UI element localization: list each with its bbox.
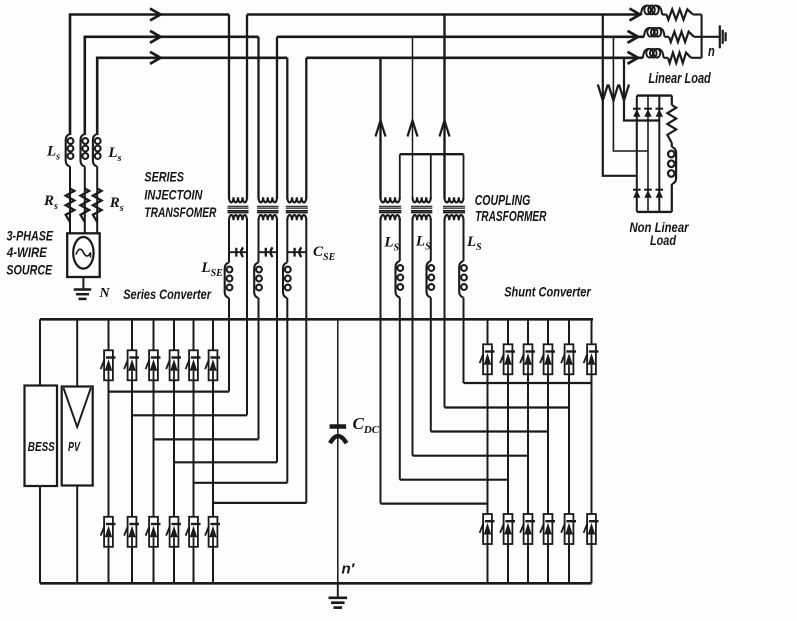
wire shunt leg 1 upper stub xyxy=(487,319,489,344)
svg-text:INJECTOIN: INJECTOIN xyxy=(144,186,203,202)
IGBT switch series bottom S2p xyxy=(124,517,139,547)
transformer TC1 coupling xyxy=(379,197,401,220)
source symbol circle xyxy=(73,237,93,269)
resistor linear load phase A xyxy=(667,9,694,19)
IGBT switch series top S4 xyxy=(166,350,181,380)
wire shunt phase step leg 5 xyxy=(445,406,570,408)
wire T3 secondary right leg xyxy=(305,219,307,503)
wire series leg 2 middle xyxy=(131,380,133,517)
wire series leg 3 middle xyxy=(153,380,155,517)
ground n linear load xyxy=(720,25,726,48)
arrow TC3 current up xyxy=(440,121,450,137)
wire shunt leg 5 lower stub xyxy=(568,544,570,583)
wire series leg 3 upper stub xyxy=(153,319,155,350)
svg-text:PV: PV xyxy=(68,440,81,454)
wire T1 capacitor link xyxy=(229,251,247,253)
arrow linear load phase C xyxy=(628,52,639,64)
wire phase A from T1 to linear load xyxy=(247,13,641,16)
wire shunt leg 6 lower stub xyxy=(591,544,593,583)
inductor LSE T3 xyxy=(283,263,291,299)
IGBT switch series bottom S5p xyxy=(186,517,201,547)
wire nonlinear feed phase B xyxy=(613,37,648,151)
inductor LSE T1 xyxy=(225,263,233,299)
wire T1 primary left leg xyxy=(228,15,230,199)
wire pv bottom lead xyxy=(76,486,78,584)
wire TC1 secondary right to shunt converter xyxy=(399,298,401,480)
wire TC3 primary right leg xyxy=(463,154,465,198)
wire TC1 secondary right upper xyxy=(399,219,401,262)
wire bess bottom lead xyxy=(39,486,41,583)
IGBT switch shunt bottom Q6p xyxy=(584,514,599,544)
battery BESS box xyxy=(25,386,58,487)
wire dc positive bus xyxy=(40,318,593,321)
inductor nonlinear load L xyxy=(668,147,676,184)
wire T2 left leg to series converter xyxy=(258,298,260,439)
ground N xyxy=(74,290,92,299)
arrow nonlinear feed A xyxy=(598,85,608,101)
svg-text:COUPLING: COUPLING xyxy=(475,193,531,209)
arrow nonlinear feed B xyxy=(608,85,618,101)
IGBT switch shunt top Q4 xyxy=(540,344,555,374)
IGBT switch series bottom S6p xyxy=(205,517,220,547)
diode bridge bottom D6 xyxy=(656,190,664,198)
IGBT switch series bottom S3p xyxy=(146,517,161,547)
wire TC3 secondary left leg xyxy=(444,219,446,408)
wire TC1 secondary left leg xyxy=(380,219,382,504)
wire series leg 1 upper stub xyxy=(108,319,110,350)
wire shunt leg 3 upper stub xyxy=(527,319,529,344)
wire bridge leg 3 xyxy=(658,96,660,212)
wire shunt phase step leg 6 xyxy=(464,382,592,384)
wire shunt leg 6 upper stub xyxy=(591,319,593,344)
wire TC2 secondary left leg xyxy=(412,219,414,456)
wire series leg 4 middle xyxy=(173,380,175,517)
wire phase A source lead xyxy=(69,167,71,234)
transformer TC3 coupling xyxy=(443,197,465,220)
IGBT switch shunt bottom Q4p xyxy=(540,514,555,544)
wire TC2 primary right leg xyxy=(430,154,432,198)
wire shunt leg 4 lower stub xyxy=(547,544,549,583)
svg-text:SERIES: SERIES xyxy=(144,169,184,185)
arrow TC2 current up xyxy=(408,121,418,137)
inductor Ls phase C xyxy=(93,134,101,167)
wire series leg 4 upper stub xyxy=(173,319,175,350)
wire T3 secondary left leg xyxy=(286,219,288,263)
wire linear load B coil-resistor link xyxy=(665,36,670,38)
diode bridge top D1 xyxy=(633,109,641,117)
svg-text:SOURCE: SOURCE xyxy=(6,261,52,277)
wire bridge right top lead xyxy=(671,96,673,105)
arrow linear load phase B xyxy=(628,31,639,43)
wire linear load B to bus xyxy=(694,36,720,38)
wire shunt leg 1 lower stub xyxy=(487,544,489,583)
wire phase B from source riser to series transformer T2 xyxy=(85,37,259,135)
wire phase C source lead xyxy=(96,167,98,234)
wire shunt leg 3 middle xyxy=(527,374,529,514)
IGBT switch series top S3 xyxy=(146,350,161,380)
resistor linear load phase C xyxy=(668,53,691,63)
wire series phase step leg 4 xyxy=(174,461,277,463)
wire series leg 6 lower stub xyxy=(212,547,214,584)
IGBT switch shunt top Q5 xyxy=(561,344,576,374)
wire series leg 6 upper stub xyxy=(212,319,214,350)
inductor LSE T2 xyxy=(254,263,262,299)
svg-text:n′: n′ xyxy=(342,561,356,578)
wire bridge leg 1 xyxy=(636,96,638,212)
diode bridge bottom D4 xyxy=(633,190,641,198)
wire nonlinear feed phase A xyxy=(603,15,637,176)
wire shunt leg 2 middle xyxy=(507,374,509,514)
svg-text:3-PHASE: 3-PHASE xyxy=(7,227,54,243)
wire shunt leg 5 upper stub xyxy=(568,319,570,344)
wire T3 primary left leg xyxy=(286,58,288,199)
wire phase C from source riser to series transformer T3 xyxy=(97,58,287,135)
transformer T2 series injection xyxy=(257,197,279,220)
wire pv top lead xyxy=(76,319,78,386)
wire T2 primary left leg xyxy=(257,37,259,199)
wire n prime to ground xyxy=(337,583,339,598)
wire cdc lead xyxy=(337,319,339,583)
IGBT switch series top S6 xyxy=(205,350,220,380)
wire bess top lead xyxy=(39,319,41,385)
capacitor CSE T1 xyxy=(236,247,243,257)
wire shunt leg 2 upper stub xyxy=(507,319,509,344)
wire series phase step leg 6 xyxy=(213,502,306,504)
IGBT switch shunt bottom Q1p xyxy=(480,514,495,544)
resistor linear load phase B xyxy=(669,32,694,42)
wire T2 capacitor link xyxy=(259,251,278,253)
wire series leg 5 lower stub xyxy=(193,547,195,584)
inductor Ls phase B xyxy=(81,134,89,167)
wire T3 primary right leg xyxy=(305,58,307,199)
arrow TC1 current up xyxy=(376,121,386,137)
capacitor CDC plate top xyxy=(330,424,347,429)
wire shunt leg 4 upper stub xyxy=(547,319,549,344)
wire shunt phase step leg 3 xyxy=(413,455,529,457)
IGBT switch shunt bottom Q2p xyxy=(500,514,515,544)
IGBT switch series top S2 xyxy=(124,350,139,380)
arrow phase A xyxy=(150,9,161,21)
IGBT switch series top S1 xyxy=(101,350,116,380)
ground n prime xyxy=(329,598,348,608)
wire T1 primary right leg xyxy=(246,15,248,199)
wire dc negative bus xyxy=(40,582,592,585)
wire TC2 primary left leg tap xyxy=(412,37,414,199)
wire shunt leg 5 middle xyxy=(568,374,570,514)
IGBT switch shunt top Q2 xyxy=(500,344,515,374)
IGBT switch shunt bottom Q5p xyxy=(561,514,576,544)
IGBT switch series bottom S4p xyxy=(166,517,181,547)
wire series leg 1 middle xyxy=(108,380,110,517)
wire TC3 primary left leg tap xyxy=(443,15,445,199)
wire series leg 3 lower stub xyxy=(153,547,155,584)
wire phase C from T3 to linear load xyxy=(306,56,643,59)
wire TC3 secondary right upper xyxy=(463,219,465,262)
wire source to ground N xyxy=(82,277,84,290)
wire shunt leg 2 lower stub xyxy=(507,544,509,583)
wire shunt phase step leg 4 xyxy=(431,430,548,432)
resistor Rs phase C xyxy=(93,189,102,223)
diode bridge top D2 xyxy=(644,109,652,117)
wire phase A from source riser to series transformer T1 xyxy=(70,15,229,136)
wire linear load right bus xyxy=(701,15,703,58)
wire shunt leg 1 middle xyxy=(487,374,489,514)
wire TC1 primary right leg xyxy=(399,154,401,198)
arrow phase C xyxy=(150,52,161,64)
svg-text:Series Converter: Series Converter xyxy=(123,286,212,302)
capacitor CDC plate bottom xyxy=(330,436,347,443)
solar panel PV box xyxy=(62,387,93,486)
svg-text:TRANSFOMER: TRANSFOMER xyxy=(144,204,217,220)
IGBT switch series top S5 xyxy=(186,350,201,380)
wire bridge right bottom lead xyxy=(671,184,673,212)
wire shunt leg 3 lower stub xyxy=(527,544,529,583)
capacitor CSE T3 xyxy=(295,247,302,257)
wire linear load C to bus xyxy=(691,57,702,59)
wire TC2 secondary right to shunt converter xyxy=(430,298,432,432)
wire T1 secondary left leg xyxy=(228,219,230,263)
wire shunt phase step leg 2 xyxy=(400,479,508,481)
wire TC3 secondary right to shunt converter xyxy=(463,298,465,384)
source box xyxy=(67,233,100,277)
wire T2 secondary right leg xyxy=(276,219,278,463)
arrow nonlinear feed C xyxy=(619,85,629,101)
svg-text:N: N xyxy=(99,286,111,301)
svg-text:Linear Load: Linear Load xyxy=(648,71,711,87)
wire T3 capacitor link xyxy=(287,251,306,253)
svg-text:n: n xyxy=(708,43,715,60)
inductor linear load phase A xyxy=(641,5,662,14)
wire series phase step leg 5 xyxy=(194,482,288,484)
source sine wave xyxy=(76,249,91,257)
wire series leg 6 middle xyxy=(212,380,214,517)
wire linear load C coil-resistor link xyxy=(664,57,669,59)
wire T2 secondary left leg xyxy=(258,219,260,263)
wire shunt leg 4 middle xyxy=(547,374,549,514)
inductor Ls phase A xyxy=(66,134,74,167)
wire T3 left leg to series converter xyxy=(286,298,288,483)
wire series leg 1 lower stub xyxy=(108,547,110,584)
wire series leg 5 upper stub xyxy=(193,319,195,350)
wire TC1 primary left leg tap xyxy=(379,58,381,199)
wire bridge R-L link xyxy=(671,143,673,147)
arrow phase B xyxy=(150,31,161,43)
wire series leg 5 middle xyxy=(193,380,195,517)
wire series leg 2 lower stub xyxy=(131,547,133,584)
wire series phase step leg 3 xyxy=(154,438,259,440)
resistor Rs phase A xyxy=(66,189,75,223)
solar panel PV triangle xyxy=(64,388,91,427)
IGBT switch shunt top Q1 xyxy=(480,344,495,374)
inductor LS TC3 xyxy=(459,261,467,298)
transformer T3 series injection xyxy=(286,197,308,220)
wire shunt phase step leg 1 xyxy=(381,503,488,505)
svg-text:4-WIRE: 4-WIRE xyxy=(6,244,47,260)
wire TC2 secondary right upper xyxy=(430,219,432,262)
inductor linear load phase C xyxy=(643,49,664,58)
wire series leg 4 lower stub xyxy=(173,547,175,584)
svg-text:BESS: BESS xyxy=(28,440,56,454)
wire bridge bottom bus xyxy=(637,211,672,213)
wire T1 secondary right leg xyxy=(246,219,248,416)
diode bridge bottom D5 xyxy=(644,190,652,198)
transformer T1 series injection xyxy=(228,197,249,220)
svg-text:Shunt Converter: Shunt Converter xyxy=(504,284,592,300)
wire bridge leg 2 xyxy=(647,96,649,212)
arrow linear load phase A xyxy=(630,9,641,21)
resistor nonlinear load R xyxy=(667,105,676,143)
wire nonlinear feed phase C xyxy=(624,58,659,121)
wire bridge top bus xyxy=(637,94,672,96)
IGBT switch shunt bottom Q3p xyxy=(520,514,535,544)
wire phase B from T2 to linear load xyxy=(277,35,644,38)
wire phase B source lead xyxy=(84,167,86,234)
wire series phase step leg 2 xyxy=(132,414,247,416)
IGBT switch series bottom S1p xyxy=(101,517,116,547)
transformer TC2 coupling xyxy=(411,197,432,220)
inductor LS TC2 xyxy=(427,261,435,298)
wire T2 primary right leg xyxy=(276,37,278,199)
diode bridge top D3 xyxy=(656,109,664,117)
wire series leg 2 upper stub xyxy=(131,319,133,350)
svg-text:Load: Load xyxy=(650,232,676,248)
resistor Rs phase B xyxy=(81,189,90,223)
wire linear load A to bus xyxy=(693,13,702,15)
wire series phase step leg 1 xyxy=(109,391,230,393)
inductor linear load phase B xyxy=(644,28,665,37)
IGBT switch shunt top Q3 xyxy=(520,344,535,374)
svg-text:TRASFORMER: TRASFORMER xyxy=(475,209,547,225)
IGBT switch shunt top Q6 xyxy=(584,344,599,374)
wire coupling star bus xyxy=(400,153,464,155)
inductor LS TC1 xyxy=(396,261,404,298)
wire shunt leg 6 middle xyxy=(591,374,593,514)
wire T1 left leg to series converter xyxy=(228,298,230,392)
wire linear load A coil-resistor link xyxy=(662,13,667,15)
capacitor CSE T2 xyxy=(266,247,273,257)
